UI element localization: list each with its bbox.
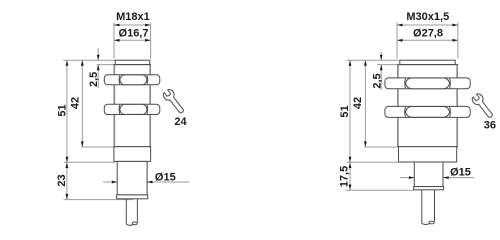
svg-text:Ø16,7: Ø16,7 xyxy=(119,27,149,39)
svg-text:23: 23 xyxy=(56,174,68,186)
svg-text:51: 51 xyxy=(339,105,351,117)
svg-text:Ø15: Ø15 xyxy=(450,166,471,178)
svg-text:Ø27,8: Ø27,8 xyxy=(413,27,443,39)
svg-text:51: 51 xyxy=(57,104,69,116)
svg-text:2,5: 2,5 xyxy=(88,72,100,87)
svg-text:17,5: 17,5 xyxy=(339,166,351,187)
svg-text:M30x1,5: M30x1,5 xyxy=(406,11,449,23)
svg-text:36: 36 xyxy=(484,120,496,132)
svg-text:2,5: 2,5 xyxy=(371,73,383,88)
svg-text:42: 42 xyxy=(352,97,364,109)
svg-text:42: 42 xyxy=(69,97,81,109)
svg-text:M18x1: M18x1 xyxy=(116,11,150,23)
svg-text:24: 24 xyxy=(174,116,187,128)
svg-text:Ø15: Ø15 xyxy=(155,171,176,183)
